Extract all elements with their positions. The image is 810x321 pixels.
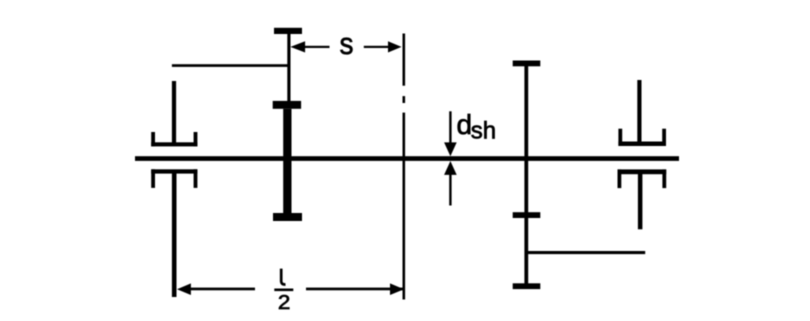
svg-text:s: s	[340, 26, 354, 61]
svg-text:d: d	[457, 109, 473, 140]
svg-text:sh: sh	[471, 118, 496, 145]
svg-text:2: 2	[278, 292, 291, 314]
